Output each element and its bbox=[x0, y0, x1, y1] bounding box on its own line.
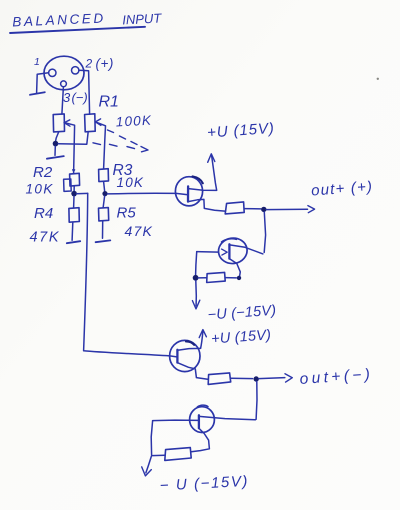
resistor (Q4 source) bbox=[165, 448, 191, 461]
svg-text:R5: R5 bbox=[117, 205, 137, 222]
resistor (Q1 source) bbox=[225, 202, 244, 214]
Q2 source wire bbox=[230, 259, 241, 278]
svg-text:R4: R4 bbox=[34, 205, 53, 222]
node F junction bbox=[254, 376, 259, 381]
resistor R2 (10K) bbox=[70, 173, 80, 186]
out- wire arrow bbox=[259, 378, 285, 379]
ground (R4) bbox=[67, 241, 80, 243]
resistor R5 (47K) bbox=[99, 208, 109, 221]
wire R3 to node C bbox=[104, 182, 105, 191]
transistor Q3 body bbox=[170, 340, 200, 371]
svg-text:R2: R2 bbox=[33, 164, 53, 181]
resistor R2 double outline bbox=[64, 179, 72, 191]
transistor Q4 body bbox=[190, 407, 215, 433]
svg-text:47K: 47K bbox=[30, 230, 61, 246]
Q4 gate wire bbox=[153, 419, 199, 422]
transistor Q1 channel bar bbox=[187, 186, 189, 201]
wire node F down to Q4 drain bbox=[255, 382, 258, 420]
wire resistor to left rail bbox=[152, 454, 165, 456]
resistor (Q3 source) bbox=[208, 373, 231, 385]
wire R1b junction to R3 (arrow into R1b) bbox=[96, 122, 105, 169]
transistor Q1 body bbox=[175, 177, 202, 206]
out+ wire arrow bbox=[266, 208, 307, 210]
transistor Q2 channel bar bbox=[228, 244, 230, 258]
+U arrowhead (Q1) bbox=[208, 154, 215, 163]
+U up arrow (Q3) bbox=[201, 331, 203, 348]
paper speck bbox=[377, 78, 379, 80]
wire pin1 to ground bbox=[37, 73, 49, 93]
long wire node B to Q3 gate bbox=[84, 193, 177, 357]
svg-text:INPUT: INPUT bbox=[122, 10, 163, 27]
wire node C to R5 bbox=[103, 196, 105, 208]
Q2 gate wire with arrow bbox=[197, 251, 219, 254]
wire R1a junction to R2 (arrow into R1a) bbox=[65, 123, 74, 173]
connector J1 (XLR) body bbox=[44, 56, 84, 90]
resistor R3 (10K) bbox=[99, 169, 109, 182]
node A junction bbox=[53, 141, 59, 147]
node E junction bbox=[193, 275, 199, 281]
node C junction bbox=[102, 191, 107, 196]
ground (pin 1) bbox=[30, 92, 45, 95]
dashed callout line (lower) bbox=[93, 143, 135, 149]
Q3 source wire bbox=[178, 363, 208, 380]
connector J1 pin 2 contact bbox=[72, 67, 79, 74]
node B junction bbox=[71, 191, 77, 197]
Q2 drain wire bbox=[230, 245, 263, 254]
wire Q4 gate to left rail bbox=[151, 421, 152, 455]
Q4 source wire bbox=[191, 428, 209, 451]
wire node A to R1b bottom bbox=[58, 132, 88, 145]
svg-text:10K: 10K bbox=[117, 175, 145, 190]
svg-text:1: 1 bbox=[34, 56, 40, 68]
wire R2 bottom to node B bbox=[73, 186, 75, 191]
node D junction bbox=[261, 207, 266, 212]
-U down arrow (Q2) bbox=[195, 281, 198, 306]
wire node D down to Q2 drain bbox=[264, 212, 265, 252]
node (Q2 source) bbox=[237, 276, 241, 280]
wire pin2 to R1b bbox=[79, 70, 90, 114]
Q4 drain wire bbox=[199, 416, 255, 419]
title BALANCED INPUT bbox=[12, 10, 163, 29]
tiny arrow into R2 top bbox=[73, 170, 75, 172]
transistor Q4 channel bar bbox=[198, 415, 200, 428]
wire R5 to ground bbox=[102, 221, 104, 238]
svg-text:(−): (−) bbox=[72, 90, 88, 105]
svg-text:10K: 10K bbox=[26, 182, 54, 197]
svg-text:(+): (+) bbox=[96, 56, 114, 71]
svg-text:100K: 100K bbox=[115, 113, 152, 130]
wire R1a bottom to node A bbox=[56, 132, 59, 141]
svg-text:2: 2 bbox=[85, 57, 93, 71]
svg-text:R1: R1 bbox=[99, 94, 119, 111]
wire node C to Q1 gate bbox=[107, 193, 186, 194]
-U down arrow (Q4) bbox=[146, 456, 152, 473]
wire node A to ground bbox=[54, 146, 56, 155]
Q1 drain wire to +U riser bbox=[188, 156, 216, 191]
wire Q2 gate to node E bbox=[196, 252, 197, 275]
wire node B to long gate wire corner bbox=[77, 192, 88, 194]
wire node E to resistor bbox=[198, 277, 206, 279]
wire resistor to node F bbox=[231, 377, 253, 379]
wire pin3 to R1a bbox=[62, 87, 64, 114]
Q1 source wire bbox=[188, 199, 225, 211]
svg-text:3: 3 bbox=[63, 90, 71, 105]
connector J1 pin 3 contact bbox=[61, 81, 67, 87]
wire resistor to node D bbox=[244, 208, 261, 210]
wire R4 to ground bbox=[71, 222, 74, 240]
resistor (Q2 source) bbox=[207, 272, 226, 282]
Q3 drain wire bbox=[178, 348, 201, 350]
wire node B to R4 bbox=[73, 196, 75, 208]
transistor Q3 channel bar bbox=[176, 350, 178, 363]
transistor Q2 body bbox=[217, 236, 249, 265]
resistor R1a (100K, left) bbox=[53, 114, 64, 132]
dashed callout line (upper) bbox=[108, 130, 138, 145]
resistor R1b (100K, right) bbox=[85, 114, 96, 132]
connector J1 pin 1 contact bbox=[49, 69, 56, 76]
resistor R4 (47K) bbox=[69, 208, 79, 223]
wire resistor to Q2 source node bbox=[225, 277, 236, 279]
ground (R5) bbox=[96, 240, 111, 242]
ground (node A) bbox=[47, 156, 64, 159]
svg-text:47K: 47K bbox=[125, 223, 154, 239]
title underline bbox=[10, 27, 145, 33]
